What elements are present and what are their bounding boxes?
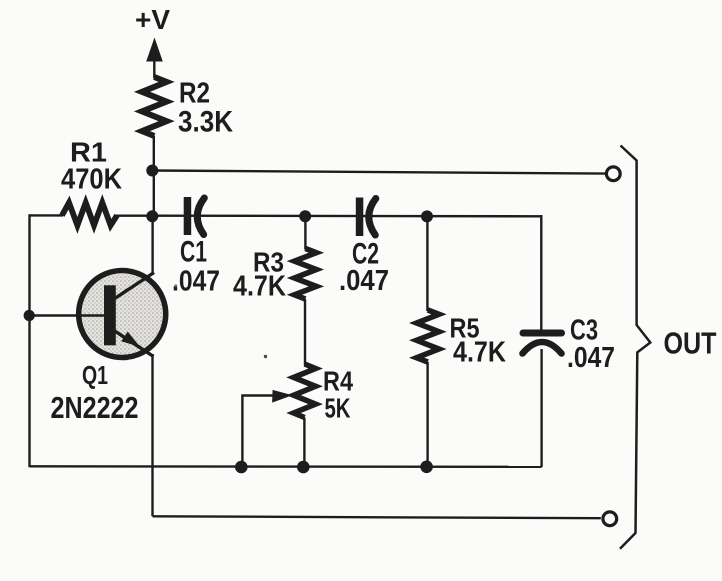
wire R3 bottom to R4 top bbox=[304, 299, 306, 365]
wire R3 top bbox=[304, 216, 306, 250]
wire R4 bottom bbox=[303, 418, 305, 468]
node base junction bbox=[24, 310, 35, 321]
left vertical wire bbox=[28, 214, 30, 467]
top output terminal bbox=[606, 167, 620, 181]
svg-text:C1: C1 bbox=[180, 236, 207, 269]
svg-text:4.7K: 4.7K bbox=[233, 271, 286, 303]
node R4 wiper bottom bbox=[235, 461, 248, 474]
collector wire bbox=[151, 216, 153, 275]
svg-text:.047: .047 bbox=[172, 266, 220, 298]
wire mid rail corner down to C3 bbox=[540, 215, 542, 330]
wire C3 bottom bbox=[540, 349, 542, 467]
R2 value label bbox=[178, 78, 233, 139]
node top rail junction bbox=[146, 165, 158, 177]
wire base bbox=[30, 314, 107, 316]
R3 label bbox=[233, 247, 286, 303]
svg-text:3.3K: 3.3K bbox=[178, 106, 233, 139]
node R3 top junction bbox=[299, 210, 311, 222]
scan speck bbox=[264, 355, 267, 358]
resistor R3 bbox=[294, 249, 316, 300]
node R5 top junction bbox=[421, 210, 433, 222]
svg-text:+V: +V bbox=[135, 4, 170, 35]
resistor R1 bbox=[62, 203, 117, 226]
svg-text:OUT: OUT bbox=[664, 326, 717, 361]
node R5 bottom bbox=[420, 461, 433, 474]
mid rail wire bbox=[152, 214, 541, 217]
emitter wire bbox=[151, 354, 153, 516]
wire R2 bottom to mid node bbox=[153, 136, 155, 217]
R5 label bbox=[450, 313, 507, 369]
transistor Q1 bbox=[78, 271, 166, 358]
wire R1 to node bbox=[116, 214, 152, 216]
capacitor C3 bbox=[523, 333, 562, 354]
wire left of R1 bbox=[30, 214, 64, 216]
resistor R4 (rheostat) bbox=[294, 364, 316, 418]
lower rail wire (emitter to output) bbox=[153, 516, 601, 518]
R1 label bbox=[61, 137, 122, 196]
svg-text:5K: 5K bbox=[325, 393, 351, 424]
bottom rail wire bbox=[30, 465, 542, 468]
output brace bbox=[620, 146, 650, 549]
capacitor C1 bbox=[184, 197, 205, 235]
resistor R5 bbox=[417, 310, 439, 362]
wire R5 bottom bbox=[426, 362, 428, 467]
svg-text:4.7K: 4.7K bbox=[453, 337, 506, 369]
svg-text:Q1: Q1 bbox=[82, 360, 108, 390]
scan speck bbox=[174, 284, 177, 287]
top rail wire bbox=[152, 171, 606, 174]
bottom output terminal bbox=[603, 512, 617, 526]
node R1/C1 junction bbox=[146, 210, 158, 222]
R4 wiper arrow bbox=[242, 390, 292, 467]
capacitor C2 bbox=[356, 198, 376, 237]
resistor R2 bbox=[142, 77, 167, 136]
R4 label bbox=[323, 366, 353, 424]
+V supply arrow bbox=[146, 38, 163, 79]
svg-text:.047: .047 bbox=[567, 342, 615, 374]
Q1 label bbox=[51, 360, 139, 425]
C3 label bbox=[567, 315, 615, 375]
node R4 bottom bbox=[297, 461, 310, 474]
svg-text:2N2222: 2N2222 bbox=[51, 390, 139, 425]
svg-text:.047: .047 bbox=[339, 265, 389, 297]
C2 label bbox=[339, 238, 389, 298]
wire R5 top bbox=[426, 216, 428, 311]
svg-text:470K: 470K bbox=[61, 164, 122, 196]
C1 label bbox=[172, 236, 220, 298]
